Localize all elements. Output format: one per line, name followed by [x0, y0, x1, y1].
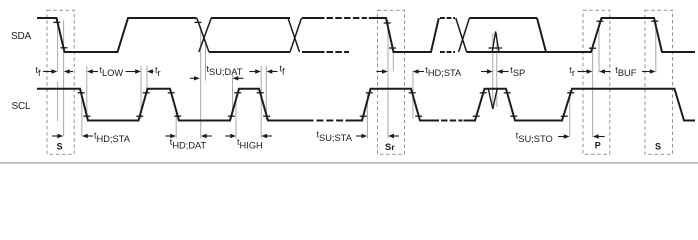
- svg-text:P: P: [595, 141, 601, 151]
- svg-text:SDA: SDA: [11, 31, 31, 42]
- svg-text:S: S: [655, 142, 661, 152]
- svg-text:SCL: SCL: [12, 101, 31, 112]
- svg-text:S: S: [57, 142, 63, 152]
- svg-text:Sr: Sr: [385, 142, 395, 153]
